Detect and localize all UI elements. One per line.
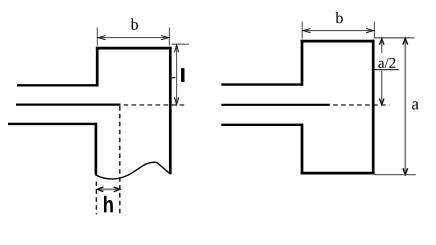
right upper wall line bbox=[221, 83, 303, 85]
label a bbox=[412, 101, 419, 109]
dimension h line bbox=[98, 188, 119, 190]
dimension l line bbox=[176, 45, 178, 104]
label a/2 bbox=[378, 58, 395, 68]
right stub top-left vertical edge bbox=[301, 40, 304, 86]
left stub right edge bbox=[169, 47, 172, 174]
left stub lower-left vertical edge bbox=[95, 123, 98, 175]
right center conductor line bbox=[221, 104, 329, 106]
dimension a/2 lower line bbox=[381, 71, 383, 105]
dimension a line bbox=[404, 39, 406, 175]
label b (right) bbox=[335, 12, 342, 23]
left lower wall line bbox=[8, 123, 97, 125]
dimension b right fig right arrowhead bbox=[366, 29, 373, 33]
right stub right edge bbox=[372, 40, 375, 175]
label l bbox=[181, 68, 185, 82]
right stub bottom edge bbox=[301, 172, 375, 175]
dimension b right fig left extension line bbox=[301, 22, 303, 39]
dimension b line bbox=[98, 37, 168, 39]
dimension h left arrowhead bbox=[97, 187, 103, 192]
left center conductor line bbox=[16, 103, 121, 105]
left upper wall line bbox=[17, 84, 99, 86]
dimension a/2 upper line bbox=[381, 39, 383, 53]
label b (left) bbox=[131, 19, 138, 30]
dimension a/2 top arrowhead bbox=[379, 39, 384, 45]
dimension b left extension line bbox=[96, 28, 98, 46]
dashed projection line at x=120 bbox=[119, 106, 121, 215]
right center line dashed extension bbox=[333, 104, 389, 106]
dimension b right extension line bbox=[168, 28, 170, 46]
dimension h right arrowhead bbox=[114, 187, 120, 192]
right stub lower-left vertical edge bbox=[301, 124, 304, 175]
top extension line for dimension a bbox=[375, 37, 415, 39]
right stub top edge bbox=[301, 40, 375, 43]
dimension b right fig left arrowhead bbox=[303, 29, 310, 33]
a/2 label underline bbox=[375, 69, 399, 71]
left stub top edge bbox=[96, 47, 172, 50]
dimension a bottom arrowhead bbox=[403, 168, 408, 174]
bottom extension line for dimension a bbox=[375, 174, 416, 176]
dimension l top arrowhead bbox=[175, 45, 179, 52]
dimension b right arrowhead bbox=[161, 36, 168, 40]
label h bbox=[104, 196, 113, 213]
dimension a top arrowhead bbox=[403, 38, 408, 44]
wavy break line bbox=[95, 162, 170, 179]
dimension b left arrowhead bbox=[98, 36, 105, 40]
dimension a/2 bottom arrowhead bbox=[379, 99, 384, 105]
dimension b right fig line bbox=[303, 30, 373, 32]
dimension l bottom arrowhead bbox=[175, 97, 179, 104]
dimension l mid tick bbox=[171, 76, 175, 79]
left center line dashed extension bbox=[124, 104, 188, 106]
right lower wall line bbox=[221, 124, 303, 126]
dimension b right fig right extension line bbox=[373, 22, 375, 39]
left stub top-left vertical edge bbox=[96, 47, 99, 87]
dashed projection line at stub left edge bbox=[95, 182, 97, 215]
dimension l top extension line bbox=[172, 43, 190, 45]
